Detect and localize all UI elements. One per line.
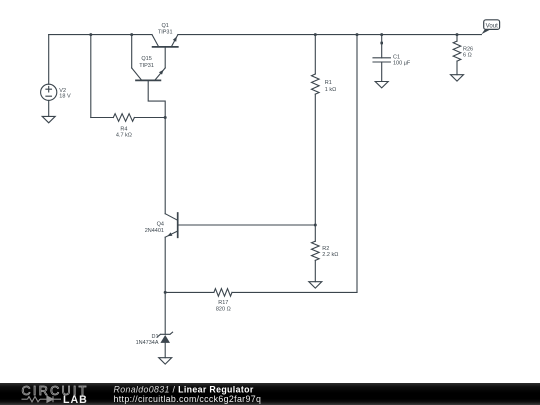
svg-text:1 kΩ: 1 kΩ bbox=[325, 87, 336, 93]
ground (V2) bbox=[42, 116, 55, 122]
wire R17 left lead bbox=[165, 291, 214, 293]
wire main column to Q4 collector bbox=[164, 118, 166, 214]
wire Q1 base to Q15 emitter bbox=[164, 47, 166, 68]
svg-text:R2: R2 bbox=[322, 246, 329, 252]
wire R1 top lead bbox=[314, 35, 316, 74]
wire D1 bottom lead bbox=[164, 343, 166, 358]
flag Vout bbox=[484, 20, 500, 30]
svg-text:1N4734A: 1N4734A bbox=[136, 340, 159, 346]
svg-text:Vout: Vout bbox=[486, 22, 499, 29]
wire R4 left riser bbox=[90, 35, 92, 118]
capacitor C1 bbox=[373, 57, 390, 59]
svg-text:R17: R17 bbox=[218, 300, 228, 306]
transistor Q15 bbox=[131, 35, 133, 68]
ground (D1) bbox=[159, 358, 172, 364]
wire top rail right bbox=[178, 34, 482, 36]
ground (R26) bbox=[451, 75, 464, 81]
svg-text:Q15: Q15 bbox=[141, 56, 151, 62]
svg-text:C1: C1 bbox=[393, 55, 400, 61]
footer bar bbox=[0, 383, 540, 405]
svg-text:Q4: Q4 bbox=[157, 222, 164, 228]
svg-text:2N4401: 2N4401 bbox=[145, 228, 164, 234]
wire R4 left lead bbox=[91, 117, 114, 119]
svg-text:6 Ω: 6 Ω bbox=[463, 53, 472, 59]
logo wire art bbox=[22, 396, 62, 402]
wire D1 top lead bbox=[164, 292, 166, 334]
resistor R26 bbox=[453, 41, 461, 61]
svg-text:100 µF: 100 µF bbox=[393, 61, 411, 67]
wire R2 bottom lead bbox=[314, 260, 316, 281]
wire R26 bottom lead bbox=[456, 61, 458, 75]
svg-text:Q1: Q1 bbox=[162, 23, 169, 29]
resistor R4 bbox=[113, 114, 134, 122]
wire V2 top riser bbox=[48, 35, 50, 85]
svg-text:18 V: 18 V bbox=[59, 94, 71, 100]
svg-text:2.2 kΩ: 2.2 kΩ bbox=[322, 252, 338, 258]
svg-text:TIP31: TIP31 bbox=[139, 63, 154, 69]
wire C1 bottom lead bbox=[381, 62, 383, 82]
wire Q4 base bbox=[178, 224, 316, 226]
svg-text:TIP31: TIP31 bbox=[158, 29, 173, 35]
resistor R17 bbox=[214, 289, 232, 297]
ground (C1) bbox=[375, 82, 388, 88]
wire R17 right lead bbox=[232, 291, 357, 293]
ground (R2) bbox=[309, 282, 322, 288]
svg-text:4.7 kΩ: 4.7 kΩ bbox=[116, 132, 132, 138]
wire Q4 emitter down bbox=[164, 237, 166, 292]
svg-text:LAB: LAB bbox=[63, 394, 88, 405]
svg-text:R1: R1 bbox=[325, 80, 332, 86]
svg-text:Ronaldo0831 / Linear Regulator: Ronaldo0831 / Linear Regulator bbox=[114, 385, 254, 395]
resistor R1 bbox=[312, 74, 320, 94]
wire top rail left bbox=[49, 34, 152, 36]
wire V2 bottom bbox=[48, 100, 50, 116]
zener diode D1 bbox=[160, 335, 170, 343]
resistor R2 bbox=[312, 241, 320, 260]
wire feedback riser bbox=[356, 35, 358, 293]
wire R4 right lead bbox=[134, 117, 165, 119]
voltage source V2 bbox=[41, 84, 57, 100]
wire Q15 base jog bbox=[148, 80, 165, 117]
wire R26 top lead bbox=[456, 35, 458, 42]
svg-text:820 Ω: 820 Ω bbox=[216, 307, 231, 313]
svg-text:http://circuitlab.com/ccck6g2f: http://circuitlab.com/ccck6g2far97q bbox=[114, 394, 262, 404]
node junction dots bbox=[89, 33, 92, 36]
wire R1 bottom to node bbox=[314, 94, 316, 241]
transistor Q1 bbox=[152, 35, 159, 47]
wire C1 top lead bbox=[381, 35, 383, 58]
transistor Q4 bbox=[165, 214, 178, 221]
